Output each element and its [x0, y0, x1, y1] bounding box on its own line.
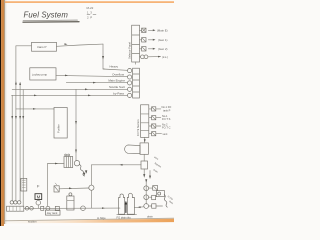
- motor pump circle: [36, 200, 41, 205]
- wire row5: [12, 94, 128, 96]
- svg-text:(Gen 1): (Gen 1): [158, 38, 168, 42]
- terminal circle 2: [128, 75, 132, 79]
- right tank selector block: [141, 105, 149, 138]
- heater/filter cluster: [64, 157, 73, 168]
- top orange edge line: [5, 1, 174, 3]
- wire box1 right to corner: [57, 44, 104, 46]
- relief coil squiggle: [80, 165, 85, 177]
- bottom line box a: [41, 206, 44, 210]
- bottom line circle d: [81, 206, 86, 211]
- wavy bracket right: [164, 195, 167, 208]
- drop pipe v47: [47, 164, 49, 207]
- small box b_fs: [54, 186, 59, 192]
- svg-text:vent: vent: [163, 132, 168, 136]
- circle A + square: [144, 186, 149, 191]
- left binding black edge: [0, 0, 1, 226]
- pump circle P2: [89, 185, 94, 190]
- left vertical pipe v2: [15, 83, 17, 201]
- bottom paper edge line: [4, 218, 174, 221]
- panel row 2 wire/valve: [140, 39, 142, 41]
- bottom line circle b: [30, 207, 34, 211]
- header note M-22: [87, 6, 97, 20]
- heater feed wire: [48, 163, 64, 165]
- wire row4: [12, 88, 127, 90]
- fill arrow between tanks: [125, 204, 127, 213]
- long wire to right valve box: [92, 164, 142, 166]
- pipe pump to valve box: [143, 154, 145, 161]
- right circle column line: [145, 180, 147, 204]
- svg-text:suction: suction: [28, 220, 37, 224]
- wire row2 from box2: [56, 75, 127, 76]
- main bottom line: [24, 207, 120, 209]
- wire to purifier: [16, 108, 54, 110]
- tank 2: [127, 193, 134, 214]
- panel row 3 wire/valve: [140, 48, 142, 50]
- svg-text:(Gen 2): (Gen 2): [158, 47, 168, 51]
- svg-text:FO drain tks: FO drain tks: [117, 216, 132, 220]
- svg-text:M-22: M-22: [87, 6, 94, 10]
- inline filter on pipe v4: [21, 178, 27, 191]
- tank 1: [119, 194, 125, 214]
- svg-text:tank P: tank P: [163, 108, 171, 112]
- svg-text:Scuttle Suct: Scuttle Suct: [109, 85, 125, 89]
- svg-text:trans P: trans P: [37, 45, 47, 49]
- wire corner down to manifold row1: [103, 44, 105, 69]
- svg-text:(d.o.): (d.o.): [162, 56, 168, 59]
- wire L1 box1 left loop: [16, 46, 32, 83]
- area below bottom band: [4, 222, 174, 226]
- selector row 4: [149, 133, 152, 135]
- svg-text:M: M: [37, 195, 41, 200]
- wire row1 to terminal: [103, 69, 127, 70]
- return to tank2: [135, 206, 144, 209]
- left vertical pipe v1: [11, 95, 13, 201]
- svg-text:drain: drain: [147, 215, 153, 219]
- svg-text:Heavy: Heavy: [109, 65, 118, 69]
- panel row 4 wire/coil symbol: [140, 56, 141, 58]
- svg-text:FO.T C: FO.T C: [162, 126, 171, 130]
- purifier box: [54, 108, 67, 139]
- wire b_fs to P2: [59, 187, 89, 190]
- paper background: [0, 0, 174, 226]
- svg-text:(Main E): (Main E): [157, 29, 168, 33]
- arrow down on vertical: [102, 56, 104, 59]
- long vertical pipe to P1: [75, 89, 77, 160]
- svg-text:Fuel System: Fuel System: [24, 11, 69, 20]
- FO pump capsule: [125, 145, 140, 154]
- arrow on box1 wire: [65, 43, 68, 45]
- selector row 2: [149, 117, 152, 119]
- left vertical pipe v4: [22, 90, 24, 206]
- svg-text:jockey pmp: jockey pmp: [32, 73, 48, 77]
- FO pump motor rect: [140, 143, 148, 154]
- left paper edge shadow: [3, 0, 6, 226]
- bottom line circle a: [25, 207, 29, 211]
- selector row 1: [149, 108, 152, 110]
- left binding orange strip: [1, 0, 4, 226]
- valve box vb: [141, 161, 148, 169]
- selector panel bottom stub: [135, 62, 137, 64]
- terminal circle 1: [128, 69, 132, 73]
- title underline 1: [23, 19, 78, 21]
- selector row 3: [149, 125, 152, 127]
- 000 circles above manifold: [10, 201, 13, 204]
- bottom orange band: [4, 219, 174, 224]
- stub selector to pump: [144, 137, 146, 142]
- terminal circle 5: [128, 93, 132, 97]
- pipe below valve box: [143, 169, 145, 175]
- panel row 1 wire/valve: [140, 29, 142, 31]
- terminal strip block: [133, 68, 140, 98]
- svg-text:2 P: 2 P: [87, 16, 92, 20]
- bottom line circle c (under drop pipe): [46, 206, 50, 210]
- terminal circle 3: [128, 81, 132, 85]
- bottom line box b: [55, 206, 59, 210]
- box2 jockey pump: [30, 68, 56, 80]
- box1 transfer pump: [32, 42, 57, 51]
- vertical through P2: [91, 165, 93, 185]
- circle B + box: [144, 195, 149, 200]
- left vertical pipe v3: [19, 84, 21, 202]
- day tank label box: [46, 210, 61, 215]
- svg-text:Selector Panel: Selector Panel: [128, 42, 132, 59]
- motor box M: [35, 194, 42, 200]
- bottom manifold box: [7, 206, 24, 211]
- svg-text:Main Engine: Main Engine: [108, 79, 125, 83]
- terminal circle 4: [128, 87, 132, 91]
- wire row3: [66, 82, 127, 84]
- pump circle P1: [74, 161, 79, 166]
- svg-text:day tank: day tank: [47, 211, 58, 215]
- circle C + square: [144, 204, 149, 209]
- svg-text:1 3: 1 3: [87, 11, 92, 15]
- svg-text:FO.T S: FO.T S: [162, 117, 171, 121]
- tanks baseline: [117, 214, 137, 216]
- title underline 2 (thick sketchy): [23, 21, 79, 24]
- svg-text:to bilge: to bilge: [97, 216, 106, 220]
- separator on line: [67, 196, 74, 210]
- svg-text:Purifier: Purifier: [57, 124, 61, 133]
- svg-text:by-Pass: by-Pass: [113, 91, 124, 95]
- selector panel box: [132, 25, 140, 62]
- svg-text:FO Tk Suction: FO Tk Suction: [136, 119, 140, 136]
- svg-text:Overflow: Overflow: [112, 73, 125, 77]
